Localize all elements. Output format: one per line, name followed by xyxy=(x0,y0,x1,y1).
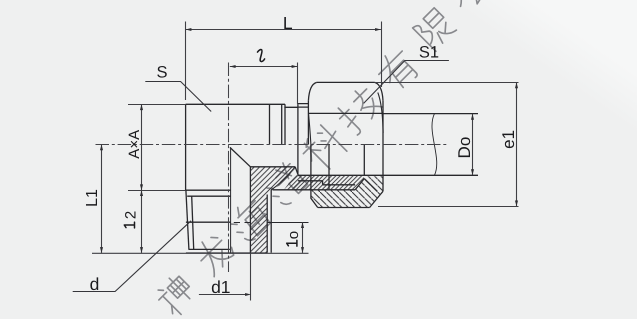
thread end flat xyxy=(189,248,230,250)
wm char long xyxy=(191,230,238,277)
light corner xyxy=(0,0,1,1)
svg-text:2: 2 xyxy=(122,211,139,219)
lo dim line xyxy=(302,222,304,253)
nut lower-left face xyxy=(311,145,318,208)
thread root left xyxy=(192,196,194,249)
svg-text:L1: L1 xyxy=(84,189,101,207)
l2 arrows xyxy=(140,190,143,196)
svg-text:S: S xyxy=(156,64,167,82)
L dim line xyxy=(186,29,381,31)
AxA arrows xyxy=(140,104,143,110)
tube bottom edge xyxy=(298,174,478,176)
L1 arrows xyxy=(100,145,103,151)
centerline vertical xyxy=(228,63,230,273)
e1 arrows xyxy=(515,82,518,88)
l dim line xyxy=(230,66,298,68)
watermark xyxy=(153,0,496,318)
nut right chamfer bow xyxy=(378,93,383,134)
svg-text:d1: d1 xyxy=(211,277,230,297)
groove line b xyxy=(281,104,283,144)
section edge at centerline xyxy=(230,147,232,253)
e1 ext top xyxy=(375,82,519,84)
nut left face xyxy=(307,101,309,145)
L ext right xyxy=(381,22,383,88)
nut inner vert xyxy=(363,145,365,176)
groove line a xyxy=(269,104,271,144)
e1 ext bottom xyxy=(378,206,519,208)
thread crest left xyxy=(186,190,189,249)
tube break wavy xyxy=(432,114,437,176)
l2 dim line xyxy=(141,190,143,253)
nut facet line xyxy=(308,112,383,114)
arrowheads xyxy=(100,28,518,296)
wm char gong xyxy=(449,0,497,15)
nut top edge xyxy=(317,81,375,83)
L ext left xyxy=(185,22,187,101)
L1 dim line xyxy=(101,145,103,253)
svg-text:d: d xyxy=(90,274,100,294)
body neck step xyxy=(285,104,298,107)
centerline horizontal xyxy=(96,144,449,146)
thread end face xyxy=(186,252,267,254)
hex bottom edge xyxy=(186,189,231,191)
wm char hai xyxy=(225,195,274,244)
S leader xyxy=(145,82,211,112)
svg-text:S1: S1 xyxy=(419,44,439,62)
bore bottom wall xyxy=(250,166,295,168)
stub top lines xyxy=(298,104,309,108)
AxA ext top xyxy=(128,104,186,106)
d1 ext xyxy=(250,253,252,301)
body top edge xyxy=(186,103,285,105)
nut right edge xyxy=(382,101,384,192)
body left edge xyxy=(185,104,187,190)
relief groove left xyxy=(266,195,268,253)
bottom ext line xyxy=(92,252,309,254)
l ext right / body face ext xyxy=(297,63,299,105)
nut inner diagonal xyxy=(364,179,377,192)
Do dim line xyxy=(472,114,474,175)
hatch nut xyxy=(311,176,383,207)
nut left chamfer bow xyxy=(309,113,311,144)
stub end face xyxy=(328,145,330,190)
groove line c xyxy=(284,107,286,144)
AxA ext bottom xyxy=(128,190,186,192)
svg-text:A×A: A×A xyxy=(126,130,143,159)
nut thread line xyxy=(273,189,356,191)
S1 leader xyxy=(364,61,449,104)
nut arc top-right xyxy=(375,82,383,100)
wm char shen xyxy=(153,272,199,318)
d leader xyxy=(73,221,191,292)
nut bottom-right chamfer xyxy=(370,191,383,207)
bore right wall xyxy=(249,167,251,253)
svg-text:Do: Do xyxy=(455,137,474,159)
label l script xyxy=(124,50,297,247)
AxA dim line xyxy=(141,104,143,190)
hatch stub fine xyxy=(284,175,364,189)
lo arrows xyxy=(301,222,304,228)
stub lower lines xyxy=(298,181,355,185)
nut bottom edge xyxy=(318,207,370,209)
centerlines xyxy=(96,63,449,273)
relief groove right xyxy=(270,190,272,253)
wm char xian xyxy=(413,7,457,51)
svg-text:e1: e1 xyxy=(499,130,518,149)
d1 arrow xyxy=(245,293,251,296)
body right face xyxy=(297,104,299,174)
wm char ke xyxy=(298,121,352,175)
svg-text:L: L xyxy=(283,13,293,33)
nut step diagonal xyxy=(355,179,364,190)
tube top edge xyxy=(383,113,478,115)
hatch body wall xyxy=(250,167,295,253)
bore corner diagonal xyxy=(230,147,251,166)
Do arrows xyxy=(471,114,474,120)
wm char you xyxy=(373,45,422,94)
wm char qian xyxy=(261,160,310,209)
svg-text:o: o xyxy=(285,231,302,239)
nut arc top-left xyxy=(308,82,316,100)
thread shoulder xyxy=(187,195,230,197)
wm char ji xyxy=(334,84,386,136)
e1 dim line xyxy=(516,82,518,206)
seat cone xyxy=(295,167,298,175)
l arrows xyxy=(230,65,236,68)
L arrows xyxy=(186,28,192,31)
bore line y222 xyxy=(186,221,231,223)
relief curve xyxy=(271,167,295,190)
d1 arrow line xyxy=(199,294,250,296)
